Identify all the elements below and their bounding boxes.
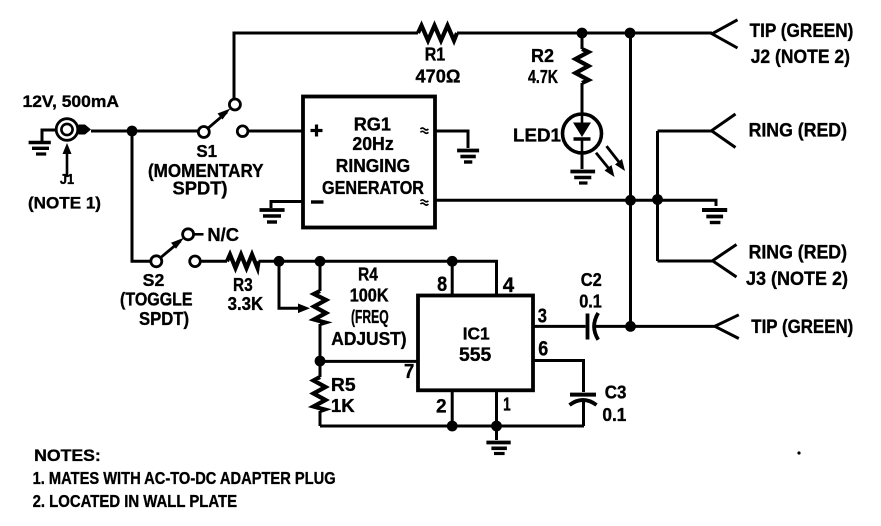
svg-text:SPDT): SPDT) <box>173 179 228 199</box>
wire to RING upper connector <box>658 130 712 133</box>
junction dot pin8 rail <box>447 256 458 267</box>
label TIP GREEN bottom <box>751 317 853 338</box>
label R2 <box>528 46 558 87</box>
wire LED to ground <box>581 153 584 169</box>
svg-text:1K: 1K <box>331 396 355 416</box>
svg-text:555: 555 <box>459 344 491 366</box>
svg-text:S2: S2 <box>143 270 165 290</box>
svg-text:3.3K: 3.3K <box>228 294 264 314</box>
svg-text:470Ω: 470Ω <box>416 67 461 87</box>
wire rail to pin4 <box>418 261 497 295</box>
wire C3 to bottom rail <box>582 401 585 426</box>
potentiometer R4 <box>314 261 326 361</box>
wire pin6 branch to C3 <box>533 361 584 393</box>
svg-text:3: 3 <box>538 306 547 328</box>
junction dot x657 y199 <box>652 194 663 205</box>
svg-text:TIP (GREEN): TIP (GREEN) <box>750 21 854 42</box>
wire junction down to S2 <box>132 131 151 261</box>
ground below pin1 <box>486 443 510 454</box>
bottom rail <box>320 425 584 428</box>
junction dot top rail at R2 <box>577 28 588 39</box>
switch S2 <box>151 229 201 267</box>
RG1 minus terminal <box>311 200 324 203</box>
junction dot pin1 rail <box>491 421 502 432</box>
vertical net x657 ring to ring <box>656 131 659 261</box>
svg-text:R5: R5 <box>331 375 356 395</box>
junction dot C2 line x630 <box>625 321 636 332</box>
label R3 <box>228 275 264 314</box>
svg-text:(FREQ: (FREQ <box>351 307 389 327</box>
svg-text:RING (RED): RING (RED) <box>749 243 847 264</box>
wire S2 throw to R3 <box>200 260 227 263</box>
pin number 1 <box>503 394 511 414</box>
wire RG1 minus to ground <box>271 202 303 209</box>
wire RG1 top output to ground <box>435 131 468 148</box>
svg-text:ADJUST): ADJUST) <box>331 329 406 349</box>
capacitor C2 <box>588 313 599 340</box>
label N/C with dash <box>195 224 240 245</box>
wire R3 to rail <box>259 260 419 263</box>
svg-text:8: 8 <box>437 273 447 296</box>
svg-text:0.1: 0.1 <box>579 292 602 312</box>
ground below RG1 minus <box>260 210 285 222</box>
junction dot top rail at x630 <box>625 28 636 39</box>
label IC1 555 <box>459 324 491 366</box>
notes text <box>33 446 336 511</box>
wire to RING J3 connector <box>658 260 713 263</box>
resistor R1 <box>418 26 457 41</box>
svg-text:4: 4 <box>503 274 515 297</box>
wiper branch to R4 <box>279 261 310 313</box>
svg-text:TIP (GREEN): TIP (GREEN) <box>751 317 853 338</box>
svg-text:2. LOCATED IN WALL PLATE: 2. LOCATED IN WALL PLATE <box>33 491 238 511</box>
junction dot x630 y200 <box>625 195 636 206</box>
ground right of RG1 <box>457 151 479 163</box>
connector jack J1 <box>56 119 91 141</box>
junction dot pin2 rail <box>447 421 458 432</box>
capacitor C3 <box>570 395 597 405</box>
label C2 <box>579 270 602 312</box>
stray dot <box>797 451 800 454</box>
svg-text:J1: J1 <box>60 171 74 188</box>
RG1 ac mark top <box>420 128 428 133</box>
svg-text:LED1: LED1 <box>513 126 561 146</box>
svg-text:R4: R4 <box>358 264 378 284</box>
wire C2 to TIP connector <box>595 325 715 328</box>
svg-text:R1: R1 <box>425 45 446 65</box>
wire RG1 bottom output rail to right ground <box>435 200 716 206</box>
wire S1 throw to RG1 plus input <box>248 130 303 133</box>
pin number 3 <box>538 306 547 328</box>
IC1 555 box <box>418 296 533 391</box>
svg-text:1: 1 <box>503 394 511 414</box>
wire pin8 <box>451 261 454 295</box>
pin number 4 <box>503 274 515 297</box>
svg-text:4.7K: 4.7K <box>528 67 558 87</box>
label J1 <box>28 171 101 213</box>
svg-text:SPDT): SPDT) <box>139 309 189 329</box>
svg-text:GENERATOR: GENERATOR <box>322 177 424 198</box>
junction dot after R3 <box>274 256 285 267</box>
ground right near ring lines <box>702 210 727 223</box>
RG1 plus terminal <box>311 125 323 137</box>
svg-text:6: 6 <box>538 337 548 360</box>
label LED1 <box>513 126 561 146</box>
svg-text:C2: C2 <box>581 270 602 290</box>
wire pin1 <box>495 390 498 426</box>
connector RING upper <box>712 114 736 148</box>
svg-text:J3 (NOTE 2): J3 (NOTE 2) <box>746 269 848 290</box>
label R5 <box>331 375 356 416</box>
vertical net x630 <box>629 33 632 326</box>
label TIP GREEN J2 <box>750 21 854 68</box>
svg-text:RINGING: RINGING <box>336 155 410 176</box>
svg-text:N/C: N/C <box>207 224 239 245</box>
svg-text:C3: C3 <box>605 382 627 402</box>
svg-text:R3: R3 <box>233 275 253 295</box>
ringing generator RG1 box <box>303 97 435 228</box>
svg-text:RG1: RG1 <box>354 114 391 135</box>
connector TIP J2 <box>712 20 738 48</box>
svg-text:12V, 500mA: 12V, 500mA <box>23 93 120 111</box>
pin number 6 <box>538 337 548 360</box>
arrow pointing to J1 <box>63 143 72 177</box>
label R1 <box>416 45 461 87</box>
connector RING J3 <box>713 245 737 278</box>
label RING RED upper <box>749 120 847 141</box>
svg-text:S1: S1 <box>196 141 217 161</box>
svg-text:2: 2 <box>436 397 447 418</box>
wire top rail from S1 throw to J2 connector <box>234 33 712 100</box>
svg-text:RING (RED): RING (RED) <box>749 120 847 141</box>
svg-text:7: 7 <box>404 361 414 383</box>
junction node at x132 <box>127 126 138 137</box>
LED light arrows <box>596 146 625 177</box>
LED1 <box>563 114 602 153</box>
ground at J1 <box>29 130 56 154</box>
svg-text:(TOGGLE: (TOGGLE <box>120 290 193 310</box>
pin number 7 <box>404 361 414 383</box>
svg-text:NOTES:: NOTES: <box>34 446 101 465</box>
svg-text:IC1: IC1 <box>463 324 490 344</box>
wire pin1 to ground <box>495 426 498 440</box>
pin number 2 <box>436 397 447 418</box>
label 12V 500mA <box>23 93 120 111</box>
switch S1 <box>198 99 248 138</box>
resistor R5 <box>314 361 326 426</box>
svg-text:1. MATES WITH AC-TO-DC ADAPTER: 1. MATES WITH AC-TO-DC ADAPTER PLUG <box>33 468 336 488</box>
svg-text:20Hz: 20Hz <box>352 133 393 154</box>
wire pin2 <box>451 390 454 426</box>
connector TIP bottom <box>715 315 739 339</box>
label S2 <box>120 270 193 329</box>
RG1 ac mark bottom <box>420 200 428 205</box>
wire pin3 to C2 <box>533 325 586 328</box>
svg-text:R2: R2 <box>531 46 554 66</box>
label RING RED J3 <box>746 243 848 290</box>
label S1 <box>148 141 264 199</box>
wire J1 to S1 pole <box>91 130 198 133</box>
svg-text:100K: 100K <box>350 285 389 305</box>
junction dot at R4 top <box>315 256 326 267</box>
svg-text:J2 (NOTE 2): J2 (NOTE 2) <box>751 47 850 68</box>
pin number 8 <box>437 273 447 296</box>
resistor R3 <box>227 255 259 269</box>
label RG1 <box>322 114 424 199</box>
svg-text:(NOTE 1): (NOTE 1) <box>28 195 101 213</box>
ground below LED1 <box>570 172 595 184</box>
resistor R2 <box>576 33 589 114</box>
svg-text:0.1: 0.1 <box>602 405 626 425</box>
junction dot R4 R5 pin7 <box>315 356 326 367</box>
label R4 <box>331 264 406 349</box>
label C3 <box>602 382 626 425</box>
wire pin7 <box>320 360 418 363</box>
